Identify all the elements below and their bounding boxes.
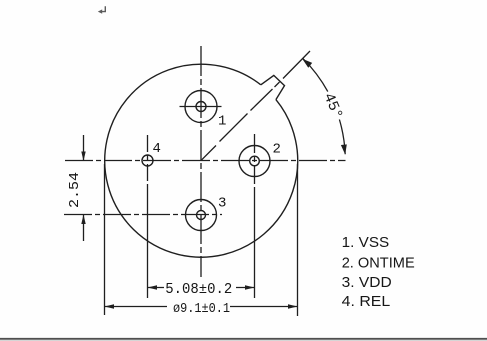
vertical centerline [200,46,202,277]
dimension 5.08: line segments [148,287,255,289]
45 deg dimension arc [303,58,346,154]
pin 2 centerline / extension line [254,134,256,187]
svg-text:2. ONTIME: 2. ONTIME [342,255,415,272]
svg-text:4: 4 [153,141,161,157]
bottom rule [0,338,487,340]
svg-text:1: 1 [218,114,226,130]
svg-text:2: 2 [273,142,281,158]
svg-text:ø9.1±0.1: ø9.1±0.1 [173,301,230,317]
svg-text:1. VSS: 1. VSS [342,234,390,251]
arrow 5.08 right [245,285,255,289]
svg-text:3: 3 [218,196,226,212]
diagonal 45-deg centerline [202,51,310,160]
pin 3 centerline [64,214,222,216]
arrow 5.08 left [148,285,158,289]
horizontal centerline [65,160,346,162]
arrow 9.1 right [288,304,298,308]
arrow 2.54 top (down) [81,152,85,162]
arrow 2.54 bottom (up) [81,215,85,225]
pin 1 crosshair [180,106,222,108]
svg-text:2.54: 2.54 [67,172,83,208]
svg-text:45°: 45° [320,91,346,123]
pin 4 [142,155,153,166]
svg-text:5.08±0.2: 5.08±0.2 [165,281,232,298]
index tab [261,75,285,99]
pin 1 [185,91,217,123]
can body circle (with gap for tab) [105,64,298,257]
pin 4 centerline / extension line [147,135,149,190]
dimension 9.1: line segments [105,306,298,308]
arrow 9.1 left [105,304,115,308]
svg-text:3. VDD: 3. VDD [342,274,392,291]
dimension 9.1: extension lines [105,164,298,316]
dimension 2.54: dimension line segments [83,135,85,241]
paragraph return mark [101,6,106,11]
pin 2 [239,146,270,177]
arrowheads [81,59,347,309]
pin 3 [186,200,217,231]
arrow 45deg arc top (points up-left along arc) [302,59,312,68]
arrow 45deg arc bottom (points down onto centerline) [341,144,347,154]
svg-text:4. REL: 4. REL [342,293,391,310]
